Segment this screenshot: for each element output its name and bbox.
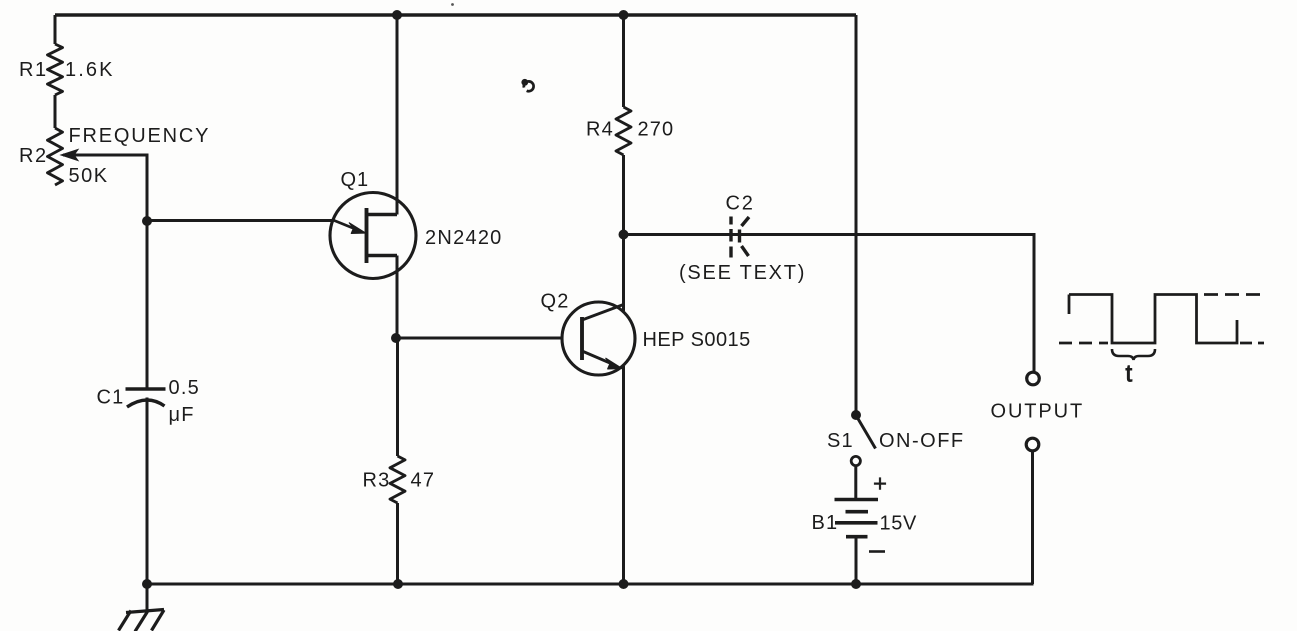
svg-text:1.6K: 1.6K xyxy=(65,59,115,81)
svg-text:C2: C2 xyxy=(726,193,755,215)
svg-text:47: 47 xyxy=(411,470,436,492)
svg-text:ON-OFF: ON-OFF xyxy=(879,430,965,452)
svg-text:Q1: Q1 xyxy=(341,169,370,191)
svg-text:R1: R1 xyxy=(19,59,48,81)
svg-text:R4: R4 xyxy=(586,119,614,141)
svg-text:0.5: 0.5 xyxy=(169,377,200,399)
svg-text:Q2: Q2 xyxy=(541,291,570,313)
svg-text:2N2420: 2N2420 xyxy=(425,227,503,249)
svg-text:OUTPUT: OUTPUT xyxy=(991,401,1085,423)
svg-text:FREQUENCY: FREQUENCY xyxy=(69,125,211,147)
svg-text:(SEE TEXT): (SEE TEXT) xyxy=(679,262,806,284)
svg-text:+: + xyxy=(873,471,887,498)
svg-text:270: 270 xyxy=(638,119,675,141)
svg-text:μF: μF xyxy=(169,404,195,426)
svg-text:15V: 15V xyxy=(880,513,917,535)
svg-text:R3: R3 xyxy=(363,470,391,492)
svg-text:50K: 50K xyxy=(69,165,109,187)
svg-text:B1: B1 xyxy=(812,512,839,534)
svg-text:C1: C1 xyxy=(97,387,125,409)
svg-text:HEP S0015: HEP S0015 xyxy=(643,329,751,351)
svg-text:S1: S1 xyxy=(827,430,854,452)
svg-text:R2: R2 xyxy=(19,145,48,167)
svg-text:t: t xyxy=(1126,361,1133,388)
